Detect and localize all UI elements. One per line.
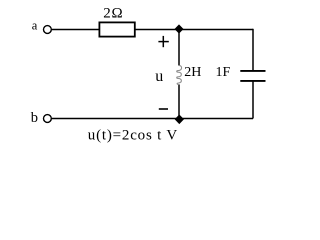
svg-text:2H: 2H	[184, 65, 201, 80]
svg-text:b: b	[31, 110, 38, 126]
svg-text:1F: 1F	[216, 65, 231, 80]
svg-text:2Ω: 2Ω	[103, 6, 123, 22]
svg-text:u(t)=2cos t V: u(t)=2cos t V	[88, 127, 178, 143]
svg-text:u: u	[155, 68, 163, 85]
svg-text:a: a	[32, 18, 38, 32]
